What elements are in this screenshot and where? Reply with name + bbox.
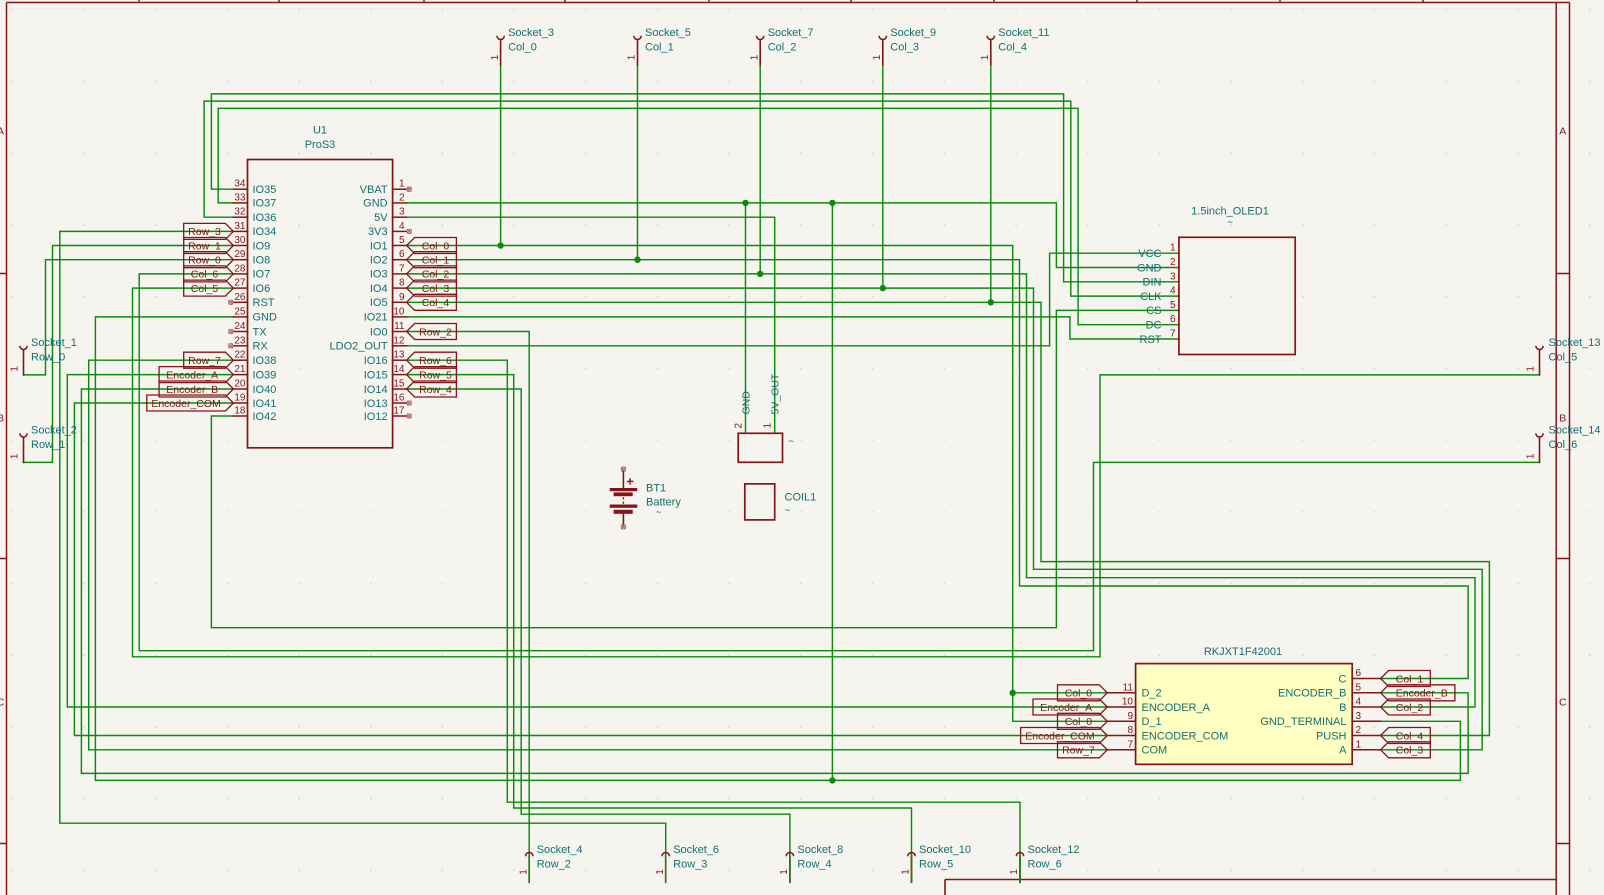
label Encoder_A xyxy=(159,367,233,383)
U1 pin 30 IO9 xyxy=(233,245,247,247)
encoder pin 3 GND_TERMINAL xyxy=(1352,720,1380,722)
svg-text:10: 10 xyxy=(1122,697,1134,708)
svg-text:Socket_1: Socket_1 xyxy=(31,337,77,349)
svg-text:11: 11 xyxy=(394,321,405,332)
svg-text:20: 20 xyxy=(234,379,246,390)
svg-text:GND: GND xyxy=(253,312,278,324)
svg-text:25: 25 xyxy=(234,306,246,317)
svg-text:29: 29 xyxy=(234,249,246,260)
svg-text:1: 1 xyxy=(872,54,883,60)
svg-text:Socket_5: Socket_5 xyxy=(645,27,691,39)
battery BT1 xyxy=(610,467,682,529)
svg-text:7: 7 xyxy=(1170,329,1176,340)
U1 pin 13 IO16 xyxy=(393,359,407,361)
wire GND drop to bottom bus xyxy=(831,203,833,781)
svg-text:A: A xyxy=(1339,745,1347,757)
svg-text:1: 1 xyxy=(1525,453,1536,459)
svg-text:2: 2 xyxy=(1356,725,1362,736)
label Col_4 xyxy=(407,294,457,310)
wire IO37 to OLED DC xyxy=(218,108,1179,324)
svg-text:3: 3 xyxy=(1356,711,1362,722)
encoder pin 9 D_1 xyxy=(1107,720,1135,722)
svg-text:IO41: IO41 xyxy=(253,398,277,410)
svg-text:28: 28 xyxy=(234,263,246,274)
U1 pin 21 IO39 xyxy=(233,374,247,376)
svg-text:VBAT: VBAT xyxy=(360,184,388,196)
svg-text:Col_2: Col_2 xyxy=(1396,702,1424,714)
svg-text:Row_5: Row_5 xyxy=(419,369,452,381)
svg-text:RST: RST xyxy=(1140,334,1162,346)
wire IO3 Col_2 to encoder B xyxy=(407,274,1475,707)
svg-text:7: 7 xyxy=(399,263,405,274)
label Encoder_B xyxy=(1381,685,1455,701)
connector Socket_12 Row_6 xyxy=(1019,856,1021,882)
encoder pin 11 D_2 xyxy=(1107,692,1135,694)
svg-text:5: 5 xyxy=(1356,682,1362,693)
socket arc xyxy=(634,36,641,40)
encoder pin 8 ENCODER_COM xyxy=(1107,735,1135,737)
svg-text:30: 30 xyxy=(234,235,246,246)
socket arc xyxy=(757,36,764,40)
svg-text:8: 8 xyxy=(1127,725,1133,736)
svg-text:IO12: IO12 xyxy=(364,411,388,423)
svg-text:9: 9 xyxy=(1127,711,1133,722)
U1 pin 8 IO4 xyxy=(393,287,407,289)
U1 pin 26 RST xyxy=(233,301,247,303)
svg-text:Socket_14: Socket_14 xyxy=(1549,425,1601,437)
socket arc xyxy=(20,433,27,437)
label Col_0 xyxy=(1058,713,1108,729)
no-connect xyxy=(229,329,233,333)
svg-text:1.5inch_OLED1: 1.5inch_OLED1 xyxy=(1191,206,1269,218)
label Col_0 xyxy=(1058,685,1108,701)
svg-text:2: 2 xyxy=(399,192,405,203)
svg-text:1: 1 xyxy=(1170,243,1176,254)
label Col_1 xyxy=(407,252,457,268)
svg-text:IO9: IO9 xyxy=(253,240,271,252)
svg-text:5V: 5V xyxy=(374,212,388,224)
svg-text:~: ~ xyxy=(1227,218,1233,229)
svg-text:Socket_10: Socket_10 xyxy=(919,844,971,856)
junction xyxy=(829,777,835,783)
svg-text:5: 5 xyxy=(399,235,405,246)
svg-text:IO42: IO42 xyxy=(253,411,277,423)
U1 pin 33 IO37 xyxy=(233,202,247,204)
encoder pin 10 ENCODER_A xyxy=(1107,706,1135,708)
label Col_4 xyxy=(1381,728,1431,744)
svg-text:Col_5: Col_5 xyxy=(1549,351,1578,363)
svg-text:Encoder_A: Encoder_A xyxy=(166,369,218,381)
U1 pin 11 IO0 xyxy=(393,331,407,333)
svg-text:LDO2_OUT: LDO2_OUT xyxy=(330,341,388,353)
svg-text:1: 1 xyxy=(901,869,912,875)
svg-text:14: 14 xyxy=(393,364,405,375)
svg-text:1: 1 xyxy=(779,869,790,875)
svg-text:Encoder_B: Encoder_B xyxy=(166,384,218,396)
svg-text:Socket_4: Socket_4 xyxy=(537,844,583,856)
svg-text:1: 1 xyxy=(1525,366,1536,372)
svg-text:17: 17 xyxy=(393,406,405,417)
svg-text:Col_6: Col_6 xyxy=(191,269,219,281)
svg-text:IO35: IO35 xyxy=(253,184,277,196)
svg-text:D_1: D_1 xyxy=(1142,716,1162,728)
svg-text:1: 1 xyxy=(10,453,21,459)
svg-text:GND_TERMINAL: GND_TERMINAL xyxy=(1260,716,1346,728)
svg-text:IO37: IO37 xyxy=(253,198,277,210)
wire Socket_9 drop xyxy=(882,65,884,288)
no-connect xyxy=(229,344,233,348)
svg-text:19: 19 xyxy=(234,393,246,404)
no-connect xyxy=(407,401,411,405)
svg-text:IO16: IO16 xyxy=(364,355,388,367)
svg-text:26: 26 xyxy=(234,292,246,303)
svg-text:22: 22 xyxy=(234,350,246,361)
svg-text:Col_4: Col_4 xyxy=(422,297,450,309)
svg-text:Row_4: Row_4 xyxy=(797,858,831,870)
wire IO36 to OLED CLK xyxy=(204,101,1179,296)
wire Col_6 to Socket_14 xyxy=(139,274,1539,651)
svg-text:11: 11 xyxy=(1123,682,1134,693)
svg-text:Row_2: Row_2 xyxy=(419,326,452,338)
svg-text:1: 1 xyxy=(399,179,405,190)
svg-text:CS: CS xyxy=(1146,305,1161,317)
label Row_7 xyxy=(1058,742,1108,758)
svg-text:ProS3: ProS3 xyxy=(305,139,336,151)
svg-text:15: 15 xyxy=(393,379,405,390)
svg-text:10: 10 xyxy=(393,306,405,317)
no-connect xyxy=(407,414,411,418)
wire Col_5 to Socket_13 xyxy=(133,288,1540,657)
svg-text:Socket_2: Socket_2 xyxy=(31,425,77,437)
wire Socket_3 drop xyxy=(500,65,502,246)
U1 pin 32 IO36 xyxy=(233,216,247,218)
wire Row_3 to Socket_6 xyxy=(60,231,666,882)
junction xyxy=(757,271,763,277)
svg-text:C: C xyxy=(1559,697,1567,709)
wire IO21 to OLED RST xyxy=(407,317,1180,339)
svg-text:6: 6 xyxy=(1356,668,1362,679)
svg-text:IO34: IO34 xyxy=(253,226,277,238)
svg-text:IO4: IO4 xyxy=(370,283,388,295)
label Encoder_COM xyxy=(1021,728,1108,744)
U1 pin 12 LDO2_OUT xyxy=(393,345,407,347)
svg-text:4: 4 xyxy=(1356,697,1362,708)
svg-text:Row_7: Row_7 xyxy=(188,355,221,367)
svg-text:IO5: IO5 xyxy=(370,297,388,309)
U1 pin 9 IO5 xyxy=(393,301,407,303)
svg-text:IO36: IO36 xyxy=(253,212,277,224)
encoder pin 1 A xyxy=(1352,749,1380,751)
wire U1 GND pin25 to GND_TERMINAL bus xyxy=(95,317,1460,781)
svg-text:GND: GND xyxy=(740,391,752,415)
U1 pin 10 IO21 xyxy=(393,316,407,318)
label Col_3 xyxy=(407,280,457,296)
no-connect xyxy=(229,300,233,304)
svg-text:D_2: D_2 xyxy=(1142,688,1162,700)
svg-text:RX: RX xyxy=(253,341,269,353)
wire GND to connector pin2 xyxy=(745,203,747,433)
svg-text:3V3: 3V3 xyxy=(368,226,388,238)
svg-text:9: 9 xyxy=(399,292,405,303)
label Encoder_B xyxy=(159,381,233,397)
svg-text:C: C xyxy=(0,697,5,709)
U1 pin 17 IO12 xyxy=(393,415,407,417)
svg-text:IO7: IO7 xyxy=(253,269,271,281)
U1 pin 2 GND xyxy=(393,202,407,204)
U1 pin 25 GND xyxy=(233,316,247,318)
svg-text:Encoder_B: Encoder_B xyxy=(1396,688,1448,700)
label Row_2 xyxy=(407,324,457,340)
svg-text:COIL1: COIL1 xyxy=(785,492,817,504)
encoder pin 4 B xyxy=(1352,706,1380,708)
svg-text:4: 4 xyxy=(399,221,405,232)
svg-text:1: 1 xyxy=(627,54,638,60)
wire Row_0 to Socket_1 xyxy=(24,260,234,375)
svg-text:ENCODER_B: ENCODER_B xyxy=(1278,688,1346,700)
svg-text:Socket_9: Socket_9 xyxy=(890,27,936,39)
label Encoder_COM xyxy=(147,395,234,411)
svg-text:IO39: IO39 xyxy=(253,369,277,381)
no-connect battery- xyxy=(621,525,625,529)
wire Row_7 to encoder COM xyxy=(89,360,1108,750)
label Col_5 xyxy=(184,280,234,296)
junction xyxy=(742,200,748,206)
wire Row_1 to Socket_2 xyxy=(24,246,234,463)
label Col_2 xyxy=(407,266,457,282)
svg-text:PUSH: PUSH xyxy=(1316,730,1347,742)
svg-text:DIN: DIN xyxy=(1143,277,1162,289)
U1 pin 34 IO35 xyxy=(233,188,247,190)
svg-text:Col_1: Col_1 xyxy=(1396,673,1424,685)
svg-text:13: 13 xyxy=(393,350,405,361)
wire IO14 Row_4 to Socket_8 xyxy=(407,389,790,882)
label Row_6 xyxy=(407,352,457,368)
svg-text:1: 1 xyxy=(1009,869,1020,875)
svg-text:Socket_8: Socket_8 xyxy=(797,844,843,856)
svg-text:6: 6 xyxy=(1170,314,1176,325)
wire IO1 Col_0 to encoder D_1 xyxy=(407,246,1108,722)
svg-text:A: A xyxy=(1559,126,1566,138)
label Row_7 xyxy=(184,352,234,368)
connector GND/5V_OUT xyxy=(733,373,794,462)
svg-text:Socket_11: Socket_11 xyxy=(998,27,1049,39)
U1 pin 1 VBAT xyxy=(393,188,407,190)
svg-text:IO8: IO8 xyxy=(253,255,271,267)
svg-text:GND: GND xyxy=(1137,262,1162,274)
svg-text:Col_3: Col_3 xyxy=(422,283,450,295)
svg-text:Row_6: Row_6 xyxy=(419,355,452,367)
svg-text:23: 23 xyxy=(234,335,246,346)
svg-text:VCC: VCC xyxy=(1138,248,1161,260)
svg-text:Row_1: Row_1 xyxy=(188,240,221,252)
junction xyxy=(880,285,886,291)
svg-text:24: 24 xyxy=(234,321,246,332)
junction xyxy=(829,200,835,206)
connector Socket_4 Row_2 xyxy=(528,856,530,882)
U1 pin 20 IO40 xyxy=(233,388,247,390)
svg-text:~: ~ xyxy=(656,507,661,517)
wire IO42 to OLED CS xyxy=(211,310,1179,627)
svg-text:IO21: IO21 xyxy=(364,312,388,324)
label Row_4 xyxy=(407,381,457,397)
U1 pin 16 IO13 xyxy=(393,402,407,404)
svg-text:IO1: IO1 xyxy=(370,240,388,252)
socket arc xyxy=(1016,853,1023,857)
U1 pin 24 TX xyxy=(233,331,247,333)
svg-text:Col_0: Col_0 xyxy=(1065,688,1093,700)
svg-text:1: 1 xyxy=(749,54,760,60)
svg-text:B: B xyxy=(0,413,4,425)
svg-text:RKJXT1F42001: RKJXT1F42001 xyxy=(1204,646,1282,658)
U1 pin 27 IO6 xyxy=(233,287,247,289)
svg-text:Col_6: Col_6 xyxy=(1549,439,1578,451)
coil COIL1 xyxy=(745,484,816,520)
svg-text:BT1: BT1 xyxy=(646,483,666,495)
connector Socket_8 Row_4 xyxy=(789,856,791,882)
svg-text:RST: RST xyxy=(253,297,275,309)
wire IO2 Col_1 to encoder C xyxy=(407,260,1469,679)
wire IO5 Col_4 to encoder PUSH xyxy=(407,302,1490,735)
wire Socket_5 drop xyxy=(637,65,639,260)
svg-text:1: 1 xyxy=(980,54,991,60)
svg-text:4: 4 xyxy=(1170,286,1176,297)
U1 pin 31 IO34 xyxy=(233,230,247,232)
svg-text:Row_3: Row_3 xyxy=(673,858,707,870)
U1 pin 29 IO8 xyxy=(233,259,247,261)
svg-text:34: 34 xyxy=(234,179,246,190)
svg-text:IO40: IO40 xyxy=(253,384,277,396)
svg-text:Col_4: Col_4 xyxy=(998,41,1027,53)
svg-text:Row_1: Row_1 xyxy=(31,439,65,451)
wire IO16 Row_6 to Socket_12 xyxy=(407,360,1020,882)
label Col_2 xyxy=(1381,699,1431,715)
svg-text:ENCODER_COM: ENCODER_COM xyxy=(1142,730,1229,742)
svg-text:IO3: IO3 xyxy=(370,269,388,281)
U1 pin 23 RX xyxy=(233,345,247,347)
svg-text:B: B xyxy=(1559,413,1566,425)
wire Encoder_A to encoder xyxy=(67,375,1107,707)
svg-text:Col_0: Col_0 xyxy=(422,240,450,252)
svg-text:Socket_3: Socket_3 xyxy=(508,27,554,39)
wire IO0 Row_2 to Socket_4 xyxy=(407,332,530,883)
socket arc xyxy=(908,853,915,857)
svg-text:2: 2 xyxy=(1170,257,1176,268)
svg-text:Row_5: Row_5 xyxy=(919,858,953,870)
wire Col_0 to encoder D_2 xyxy=(1013,692,1108,694)
socket arc xyxy=(497,36,504,40)
svg-text:COM: COM xyxy=(1142,745,1168,757)
svg-text:Encoder_COM: Encoder_COM xyxy=(151,398,220,410)
mcu U1 ProS3 xyxy=(229,125,412,448)
U1 pin 14 IO15 xyxy=(393,374,407,376)
svg-text:Col_0: Col_0 xyxy=(508,41,537,53)
svg-text:1: 1 xyxy=(655,869,666,875)
svg-text:1: 1 xyxy=(518,869,529,875)
no-connect xyxy=(407,229,411,233)
svg-text:IO15: IO15 xyxy=(364,369,388,381)
svg-text:Row_4: Row_4 xyxy=(419,384,452,396)
svg-text:Col_1: Col_1 xyxy=(645,41,674,53)
label Col_6 xyxy=(184,266,234,282)
svg-text:1: 1 xyxy=(1356,739,1362,750)
socket arc xyxy=(987,36,994,40)
svg-text:5V_OUT: 5V_OUT xyxy=(770,373,782,414)
U1 pin 5 IO1 xyxy=(393,245,407,247)
svg-text:TX: TX xyxy=(253,326,268,338)
svg-text:~: ~ xyxy=(785,506,791,517)
svg-text:Row_2: Row_2 xyxy=(537,858,571,870)
svg-text:Row_3: Row_3 xyxy=(188,226,221,238)
junction xyxy=(988,299,994,305)
U1 pin 6 IO2 xyxy=(393,259,407,261)
svg-text:Col_0: Col_0 xyxy=(1065,716,1093,728)
display 1.5inch_OLED1 xyxy=(1137,206,1295,355)
svg-text:IO0: IO0 xyxy=(370,326,388,338)
svg-text:B: B xyxy=(1339,702,1346,714)
svg-text:Col_1: Col_1 xyxy=(422,255,450,267)
U1 pin 7 IO3 xyxy=(393,273,407,275)
encoder pin 5 ENCODER_B xyxy=(1352,692,1380,694)
wire Encoder_COM to encoder xyxy=(74,403,1107,736)
svg-text:21: 21 xyxy=(234,364,246,375)
no-connect xyxy=(407,187,411,191)
wire IO15 Row_5 to Socket_10 xyxy=(407,375,912,883)
label Col_3 xyxy=(1381,742,1431,758)
svg-text:Battery: Battery xyxy=(646,497,681,509)
svg-text:8: 8 xyxy=(399,278,405,289)
svg-text:6: 6 xyxy=(399,249,405,260)
wire 5V to 5V_OUT pin xyxy=(407,217,775,433)
label Col_1 xyxy=(1381,671,1431,687)
U1 pin 15 IO14 xyxy=(393,388,407,390)
svg-text:Row_6: Row_6 xyxy=(1028,858,1062,870)
label Encoder_A xyxy=(1033,699,1107,715)
svg-text:12: 12 xyxy=(393,335,405,346)
svg-text:IO14: IO14 xyxy=(364,384,388,396)
svg-text:Encoder_A: Encoder_A xyxy=(1040,702,1092,714)
svg-text:3: 3 xyxy=(1170,271,1176,282)
U1 pin 22 IO38 xyxy=(233,359,247,361)
socket arc xyxy=(20,346,27,350)
svg-text:1: 1 xyxy=(763,423,774,429)
socket arc xyxy=(1536,346,1543,350)
svg-text:IO6: IO6 xyxy=(253,283,271,295)
svg-text:7: 7 xyxy=(1127,739,1133,750)
wire Encoder_B to encoder xyxy=(81,389,1468,773)
junction xyxy=(634,257,640,263)
encoder pin 6 C xyxy=(1352,678,1380,680)
svg-text:Col_3: Col_3 xyxy=(1396,745,1424,757)
svg-text:Col_2: Col_2 xyxy=(768,41,797,53)
svg-text:18: 18 xyxy=(234,406,246,417)
svg-text:IO2: IO2 xyxy=(370,255,388,267)
svg-text:Encoder_COM: Encoder_COM xyxy=(1025,730,1094,742)
svg-text:31: 31 xyxy=(234,221,246,232)
wire LDO2_OUT to OLED VCC xyxy=(407,253,1180,346)
connector Socket_6 Row_3 xyxy=(665,856,667,882)
svg-text:GND: GND xyxy=(363,198,388,210)
svg-text:A: A xyxy=(0,126,4,138)
svg-text:27: 27 xyxy=(234,278,246,289)
title block corner xyxy=(945,880,1556,895)
encoder pin 2 PUSH xyxy=(1352,735,1380,737)
svg-text:U1: U1 xyxy=(313,125,327,137)
socket arc xyxy=(662,853,669,857)
svg-text:DC: DC xyxy=(1146,320,1162,332)
label Row_5 xyxy=(407,367,457,383)
label Row_3 xyxy=(184,223,234,239)
socket arc xyxy=(1536,433,1543,437)
